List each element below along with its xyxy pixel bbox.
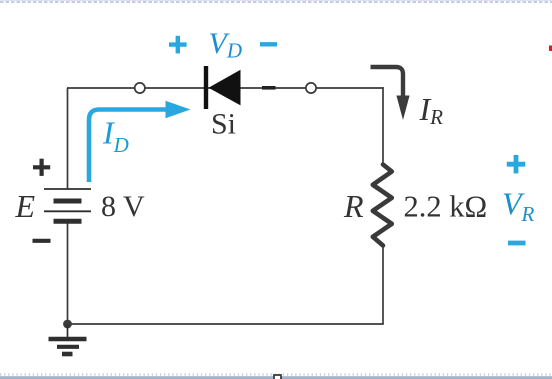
svg-text:E: E — [15, 188, 36, 224]
svg-text:Si: Si — [211, 108, 236, 141]
wire left vertical (E top to top rail) — [67, 88, 69, 189]
current arrow ID — [89, 110, 169, 183]
wire right vertical above resistor — [382, 87, 384, 165]
selection border bottom: ticks, band, handle (decorative) — [0, 373, 552, 375]
svg-text:2.2 kΩ: 2.2 kΩ — [404, 190, 488, 224]
current arrow IR — [371, 67, 404, 97]
selection dashed border top (decorative) — [0, 0, 552, 2]
wire bottom rail — [68, 323, 384, 325]
junction dot — [63, 320, 72, 329]
diode D1 (Si) cathode bar — [204, 66, 208, 109]
node terminal right (open circle) — [306, 83, 316, 93]
VR plus sign — [507, 155, 526, 173]
wire battery bottom to ground node — [67, 221, 69, 324]
wire top rail — [67, 87, 383, 89]
VR minus sign — [508, 241, 526, 246]
red mark at right edge (decorative) — [549, 46, 552, 52]
svg-text:R: R — [343, 188, 364, 224]
ground — [49, 324, 87, 354]
voltage source E (battery) — [44, 189, 91, 221]
svg-text:8 V: 8 V — [101, 190, 145, 223]
node terminal left (open circle) — [135, 83, 145, 93]
diode D1 (Si) triangle — [209, 70, 241, 106]
battery minus sign — [33, 239, 51, 243]
battery plus sign — [33, 159, 50, 176]
resistor R — [373, 165, 392, 246]
VD minus sign — [260, 42, 277, 46]
VD plus sign — [169, 36, 187, 54]
wire right vertical below resistor — [382, 245, 384, 324]
wire dash artifact right of diode — [262, 86, 276, 90]
